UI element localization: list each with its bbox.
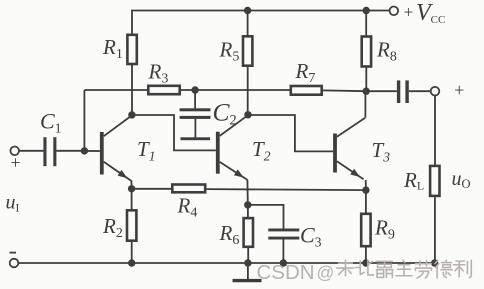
watermark hanzi [337, 260, 471, 278]
output terminal [431, 87, 440, 96]
wire C1 to T1 base node [56, 150, 84, 152]
junction T2 collector node [244, 111, 251, 118]
junction T2 emitter node [244, 201, 251, 208]
input minus sign [10, 252, 17, 254]
wire node to output cap [366, 90, 397, 92]
wire R9 bottom [365, 246, 367, 263]
wire T2 emitter vertical [246, 180, 248, 205]
wire R6 bottom [247, 247, 249, 263]
resistor R4 [172, 185, 205, 193]
resistor RL [430, 166, 439, 196]
wire R9 top [365, 190, 367, 214]
resistor R3 [148, 86, 179, 94]
resistor R1 [127, 35, 136, 64]
wire C2 lower stem [194, 119, 196, 138]
junction R8 top rail [363, 7, 370, 14]
junction T3 emitter node [362, 186, 369, 193]
junction R6 bottom rail [244, 259, 251, 266]
wire T2 emitter node to C3 [248, 205, 284, 229]
junction RL bottom rail [431, 259, 438, 266]
wire RL bottom [434, 197, 436, 264]
resistor R9 [361, 214, 370, 246]
junction T1 collector node [128, 111, 135, 118]
junction output node [363, 88, 370, 95]
wire T3 collector vertical [364, 91, 366, 117]
wire input terminal to C1 [19, 150, 43, 152]
svg-text:R9: R9 [374, 216, 395, 243]
wire R8 bottom to node [365, 66, 367, 91]
transistor T1 [100, 115, 132, 180]
resistor R6 [244, 218, 253, 247]
wire R8 top [365, 11, 367, 37]
resistor R7 [291, 86, 322, 95]
wire R5 top [247, 11, 249, 37]
wire T1 base [84, 150, 100, 152]
wire C3 bottom [282, 239, 284, 263]
svg-text:T3: T3 [372, 138, 391, 165]
svg-text:R5: R5 [219, 38, 240, 65]
resistor R8 [362, 37, 371, 67]
svg-text:+: + [9, 152, 21, 172]
wire C2 top stem [194, 90, 196, 109]
svg-text:@: @ [317, 263, 335, 283]
svg-text:VCC: VCC [416, 0, 445, 26]
svg-text:R8: R8 [376, 38, 397, 65]
junction T1 base node [81, 147, 88, 154]
svg-text:+: + [403, 2, 414, 21]
svg-text:C2: C2 [213, 97, 237, 128]
wire R7 right to node [323, 89, 367, 92]
input terminal + [10, 147, 19, 156]
transistor T2 [216, 115, 248, 180]
svg-text:R3: R3 [148, 60, 169, 87]
resistor R2 [127, 210, 136, 240]
wire T2 collector node to T3 base [248, 115, 333, 151]
junction C2 top node [191, 86, 198, 93]
junction R9 bottom rail [362, 259, 369, 266]
ground [247, 263, 249, 280]
wire T1 collector to T2 base [132, 115, 216, 150]
capacitor C3 [268, 229, 299, 232]
capacitor C2 [180, 108, 211, 111]
svg-text:R6: R6 [219, 221, 240, 248]
junction C3 bottom rail [280, 259, 287, 266]
wire T1 emitter to R4 [132, 188, 171, 190]
svg-text:R7: R7 [295, 59, 316, 86]
svg-text:R2: R2 [102, 214, 123, 241]
svg-text:uI: uI [6, 191, 20, 214]
capacitor C1 [43, 137, 46, 166]
svg-text:CSDN: CSDN [257, 261, 315, 284]
svg-text:+: + [453, 80, 465, 100]
wire R5 bottom to T2 collector [247, 66, 249, 115]
wire T3 emitter stub [365, 180, 367, 190]
svg-text:C3: C3 [300, 223, 322, 250]
VCC terminal [390, 7, 399, 16]
wire bottom rail [18, 262, 435, 264]
wire R1 bottom to T1 collector [131, 65, 133, 115]
svg-text:uO: uO [452, 168, 471, 191]
wire feedback vertical from T1 base up [83, 90, 85, 151]
junction R5 top rail [244, 7, 251, 14]
wire R4 to T3 emitter [207, 189, 366, 190]
svg-text:R1: R1 [102, 35, 123, 62]
transistor T3 [333, 118, 365, 180]
wire output terminal down to RL [434, 96, 436, 167]
svg-text:RL: RL [403, 168, 424, 193]
wire feedback horizontal to R3 [84, 89, 147, 91]
wire R2 top [131, 189, 133, 211]
resistor R5 [243, 36, 252, 65]
svg-text:T1: T1 [137, 137, 155, 164]
wire T1 emitter stub [130, 180, 132, 189]
junction T1 emitter node [128, 185, 135, 192]
svg-text:R4: R4 [177, 194, 198, 221]
svg-text:T2: T2 [252, 137, 271, 164]
input terminal - [10, 259, 19, 268]
junction R2 bottom rail [128, 259, 135, 266]
svg-text:C1: C1 [40, 109, 61, 136]
wire top VCC rail [132, 11, 390, 35]
wire R3 right to R7 left [181, 89, 290, 91]
wire R6 top [247, 205, 249, 218]
output coupling capacitor [397, 80, 400, 103]
wire R2 bottom [131, 241, 133, 264]
wire output cap to terminal [409, 90, 431, 92]
